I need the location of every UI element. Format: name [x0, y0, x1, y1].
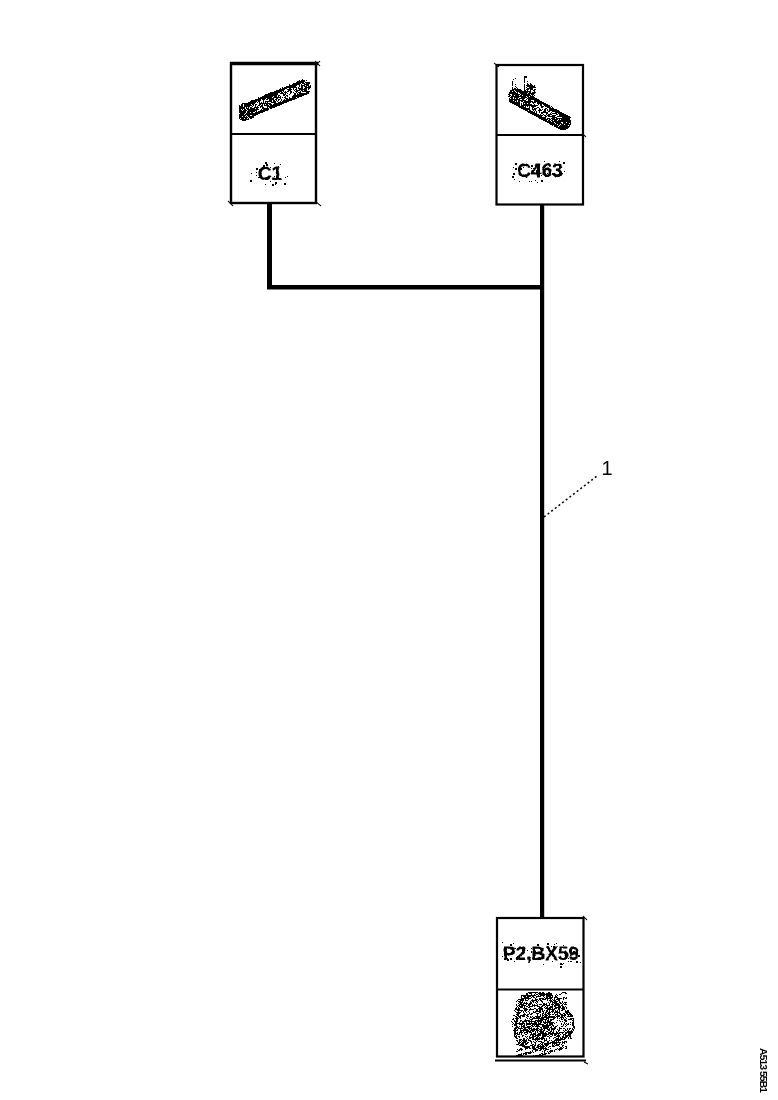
svg-text:A513 55B1: A513 55B1	[757, 1048, 769, 1093]
svg-text:1: 1	[602, 458, 613, 480]
svg-text:C463: C463	[517, 161, 562, 182]
